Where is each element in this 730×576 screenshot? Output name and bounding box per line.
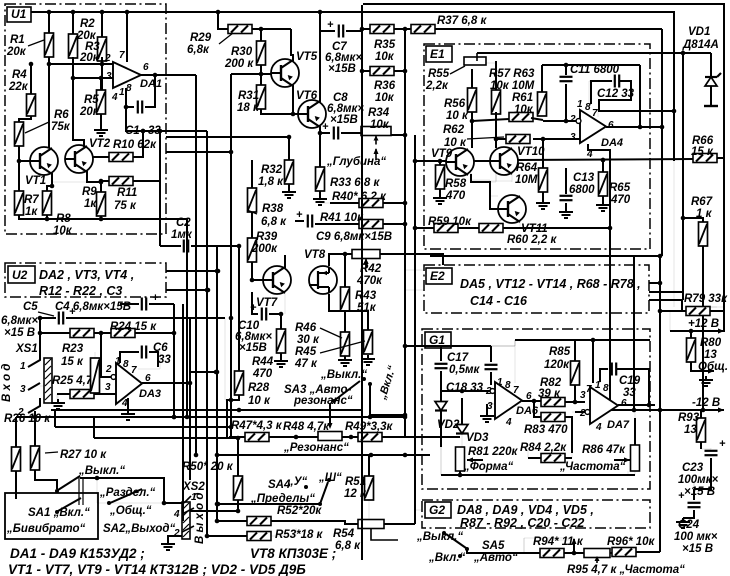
svg-text:6,8к: 6,8к bbox=[187, 44, 210, 56]
resistor R51 bbox=[365, 476, 374, 500]
wire VT8 drain bbox=[329, 254, 352, 266]
label R61 bbox=[512, 92, 534, 116]
svg-text:33: 33 bbox=[623, 387, 636, 399]
resistor R27v bbox=[31, 446, 40, 470]
capacitor C6 bbox=[142, 346, 146, 359]
wire G1 feed bbox=[415, 345, 441, 347]
resistor R6 bbox=[15, 122, 24, 146]
wire R59-R60 bbox=[458, 227, 479, 229]
label R82v bbox=[538, 388, 561, 400]
label R30 bbox=[224, 46, 254, 70]
svg-text:75 к: 75 к bbox=[114, 200, 137, 212]
label Раздел bbox=[99, 487, 156, 499]
block U2 boundary bbox=[5, 263, 166, 297]
label R38 bbox=[247, 203, 287, 228]
label Выход bbox=[194, 493, 206, 544]
label R8 bbox=[53, 213, 73, 237]
wire x231 vertical bbox=[229, 74, 234, 437]
svg-text:+: + bbox=[322, 121, 329, 133]
svg-text:R34: R34 bbox=[368, 107, 390, 119]
label VT11 bbox=[521, 223, 548, 235]
wire R35 left bbox=[360, 27, 370, 32]
svg-text:470: 470 bbox=[252, 368, 273, 380]
wire SA2 line bbox=[97, 478, 184, 505]
switch SA1a bbox=[55, 476, 80, 493]
label R95 bbox=[567, 564, 685, 576]
svg-text:„Бивибрато“: „Бивибрато“ bbox=[6, 523, 86, 535]
svg-text:С18 33: С18 33 bbox=[446, 382, 484, 394]
wire VT1 emitter bbox=[47, 173, 54, 191]
capacitor C17 bbox=[435, 364, 448, 368]
wire VD1 top bbox=[710, 53, 712, 77]
wire C6 loop bbox=[120, 352, 160, 369]
svg-text:R86 47к: R86 47к bbox=[582, 444, 626, 456]
label C23 bbox=[678, 462, 719, 498]
svg-text:U1: U1 bbox=[11, 7, 27, 21]
label DA3 bbox=[139, 388, 161, 400]
svg-text:2: 2 bbox=[104, 53, 111, 64]
wire x660 vertical bbox=[658, 254, 663, 410]
svg-text:VT1: VT1 bbox=[25, 175, 46, 187]
svg-text:В ы х о д: В ы х о д bbox=[194, 493, 206, 544]
wire pin2 drop bbox=[101, 333, 116, 379]
wire R84R83 join bbox=[565, 457, 572, 459]
wire R23 left bbox=[38, 331, 70, 336]
wire x196 vertical bbox=[194, 75, 199, 457]
svg-text:R42: R42 bbox=[360, 263, 382, 275]
wire R30 R31 link bbox=[260, 65, 262, 85]
svg-text:×15В: ×15В bbox=[328, 63, 356, 75]
label Бивибрато bbox=[6, 523, 86, 535]
wire y417 bus bbox=[16, 415, 405, 420]
wire SA5 Вкл contact bbox=[458, 554, 462, 560]
resistor R94 bbox=[540, 549, 564, 558]
wire C9 left bbox=[295, 220, 304, 222]
label R3 bbox=[79, 41, 100, 64]
ground C13 bbox=[559, 208, 573, 218]
wire C7 right bbox=[346, 30, 362, 32]
label R67 bbox=[691, 196, 713, 220]
wire y53 line to VD1 bbox=[477, 51, 711, 56]
label R80 bbox=[698, 337, 728, 373]
label SA1 Выкл bbox=[78, 465, 125, 477]
wire DA4 pin4 bbox=[588, 144, 610, 228]
label R1 bbox=[6, 34, 44, 58]
label C1 bbox=[125, 125, 161, 137]
label R23 bbox=[61, 343, 84, 368]
svg-text:VT10: VT10 bbox=[517, 146, 545, 158]
svg-text:VD1: VD1 bbox=[688, 26, 710, 38]
wire G1 top bbox=[441, 345, 515, 347]
label VT10 bbox=[517, 146, 545, 158]
label SA3 bbox=[284, 384, 353, 407]
svg-text:С4 6,8мк×15В: С4 6,8мк×15В bbox=[55, 301, 131, 313]
svg-text:6: 6 bbox=[143, 62, 149, 73]
resistor R86 trimmer bbox=[631, 445, 640, 471]
svg-text:×15В: ×15В bbox=[330, 114, 358, 126]
resistor R25 bbox=[70, 390, 94, 399]
wire fb drop bbox=[639, 65, 641, 127]
svg-text:R83 470: R83 470 bbox=[524, 424, 568, 436]
svg-text:10 к: 10 к bbox=[248, 395, 271, 407]
svg-text:R44: R44 bbox=[252, 356, 274, 368]
wire G1 top line bbox=[441, 345, 491, 347]
svg-text:„Выкл.“: „Выкл.“ bbox=[78, 465, 125, 477]
wire C24 v bbox=[694, 458, 711, 500]
resistor R37 bbox=[411, 25, 435, 34]
label R52 bbox=[277, 505, 322, 517]
wire R8 bot bbox=[46, 215, 48, 219]
label R49 bbox=[345, 421, 394, 433]
label line1b bbox=[250, 546, 336, 561]
svg-text:15 к: 15 к bbox=[691, 146, 714, 158]
wire C23 conn bbox=[701, 448, 711, 449]
label R82 bbox=[538, 377, 562, 398]
label R6 bbox=[25, 109, 71, 133]
svg-text:470: 470 bbox=[445, 190, 466, 202]
label R81 bbox=[468, 446, 518, 458]
label R58 bbox=[445, 178, 467, 202]
switch SA1 link bbox=[79, 477, 83, 505]
svg-text:R4: R4 bbox=[12, 69, 27, 81]
wire DA1 pin3 line bbox=[71, 76, 113, 81]
svg-text:3: 3 bbox=[105, 382, 111, 393]
svg-text:R1: R1 bbox=[10, 34, 25, 46]
label R65 bbox=[609, 182, 631, 206]
label R24 bbox=[110, 321, 157, 333]
wire R64 top bbox=[542, 139, 544, 168]
wire y410 bus bbox=[51, 408, 363, 413]
resistor R48 trimmer bbox=[318, 432, 342, 441]
svg-text:R28: R28 bbox=[248, 382, 270, 394]
wire U1 bottom rail bbox=[19, 215, 166, 221]
svg-text:DA8 , DA9 , VD4 , VD5 ,: DA8 , DA9 , VD4 , VD5 , bbox=[457, 503, 594, 517]
transistor VT6 bbox=[298, 100, 326, 128]
resistor R63 bbox=[538, 92, 547, 116]
resistor R57 bbox=[492, 90, 501, 114]
svg-text:10к: 10к bbox=[375, 92, 395, 104]
svg-text:DA7: DA7 bbox=[607, 419, 630, 431]
svg-text:7: 7 bbox=[592, 108, 598, 119]
wire R83 left bbox=[534, 401, 541, 417]
svg-text:×15В: ×15В bbox=[239, 342, 267, 354]
label +12V bbox=[688, 318, 719, 330]
svg-text:R26 10 к: R26 10 к bbox=[4, 413, 51, 425]
wire R34 right bbox=[391, 133, 407, 138]
wire R38 top bbox=[251, 160, 253, 188]
wire G1 fb top bbox=[515, 338, 650, 383]
svg-text:-12 В: -12 В bbox=[692, 397, 720, 409]
resistor R5 bbox=[97, 90, 106, 114]
svg-text:„Частота“: „Частота“ bbox=[559, 461, 626, 473]
wire C4 right bbox=[120, 304, 176, 335]
wire C23C24 link bbox=[694, 458, 711, 500]
connector XS2 bbox=[182, 502, 190, 539]
label Глубина bbox=[326, 156, 386, 168]
wire DA6 pin3 gnd bbox=[480, 404, 495, 422]
wire VT emitters bbox=[471, 173, 512, 181]
wire x683 vert bbox=[681, 53, 686, 300]
block G2 boundary bbox=[422, 500, 650, 528]
wire C1 bottom net bbox=[124, 105, 207, 134]
label C12 bbox=[597, 88, 635, 100]
capacitor C5 bbox=[59, 306, 76, 325]
label R55 bbox=[425, 66, 465, 92]
wire R84 right bbox=[565, 453, 572, 458]
svg-text:С11 6800: С11 6800 bbox=[570, 64, 620, 76]
svg-text:3: 3 bbox=[580, 390, 586, 401]
wire R50 bot bbox=[237, 500, 239, 511]
wire C18 v bbox=[490, 346, 492, 385]
svg-text:R52*20к: R52*20к bbox=[277, 505, 322, 517]
ground R32 bbox=[282, 184, 296, 198]
label G2 Выкл bbox=[416, 531, 463, 543]
wire C1 right bbox=[145, 75, 155, 107]
svg-text:DA5 , VT12 - VT14 , R68 - R78: DA5 , VT12 - VT14 , R68 - R78 , bbox=[460, 277, 641, 291]
wire VD2 bot bbox=[440, 411, 442, 447]
svg-text:SA1 „Вкл.“: SA1 „Вкл.“ bbox=[28, 507, 90, 519]
svg-text:R93: R93 bbox=[678, 412, 700, 424]
svg-text:R81 220к: R81 220к bbox=[468, 446, 518, 458]
svg-text:VT9: VT9 bbox=[431, 148, 453, 160]
wire R79 left bbox=[658, 300, 686, 313]
label VT9 bbox=[431, 148, 453, 160]
wire G1 feed2 bbox=[403, 344, 441, 349]
switch SA1b bbox=[55, 498, 81, 514]
svg-text:R45: R45 bbox=[295, 346, 317, 358]
resistor R96 bbox=[612, 548, 636, 557]
svg-text:20к: 20к bbox=[79, 52, 100, 64]
svg-text:R32: R32 bbox=[261, 164, 283, 176]
contact XS1 pin3 bbox=[28, 383, 44, 390]
svg-text:6800: 6800 bbox=[569, 184, 595, 196]
pins XS2 bbox=[173, 492, 197, 539]
label R25 bbox=[52, 375, 99, 387]
resistor R11 bbox=[109, 177, 133, 186]
label R45 bbox=[294, 341, 365, 370]
capacitor C12 bbox=[615, 75, 619, 88]
wire R46 top bbox=[329, 294, 375, 365]
pins DA3 bbox=[105, 356, 151, 409]
svg-text:12 к: 12 к bbox=[344, 488, 367, 500]
label C10 bbox=[235, 320, 272, 354]
wire R37 right bbox=[435, 28, 662, 30]
label R40 bbox=[332, 191, 387, 203]
label R96 bbox=[607, 536, 656, 548]
wire G1 fb left bbox=[491, 340, 515, 346]
label R2 bbox=[76, 18, 97, 42]
svg-text:6: 6 bbox=[621, 398, 627, 409]
resistor R46 bbox=[364, 330, 373, 354]
svg-text:100 мк×: 100 мк× bbox=[674, 531, 718, 543]
pins DA4 bbox=[569, 99, 614, 160]
label R5 bbox=[79, 94, 100, 118]
wire R94-R95 bbox=[564, 551, 584, 556]
capacitor C2 bbox=[184, 240, 188, 253]
pins XS1 bbox=[17, 361, 26, 418]
svg-text:R27 10 к: R27 10 к bbox=[60, 449, 107, 461]
wire R51 top bbox=[368, 455, 370, 476]
wire R11 right bbox=[133, 131, 160, 246]
resistor R56 bbox=[468, 88, 477, 112]
wire VT5 collector bbox=[291, 29, 293, 61]
wire VT1 base bbox=[19, 160, 30, 162]
svg-text:3: 3 bbox=[570, 132, 576, 143]
label VD1 bbox=[682, 26, 719, 51]
wire VD3 v bbox=[460, 398, 462, 447]
label Ш bbox=[318, 472, 342, 484]
svg-text:+: + bbox=[678, 490, 685, 502]
wire R6 down to R7 bbox=[17, 146, 22, 191]
wire VT6 collector bbox=[318, 10, 323, 103]
wire R4 R6 link bbox=[19, 116, 31, 122]
wire R65 top bbox=[601, 158, 606, 172]
wire R94 junction up bbox=[524, 538, 574, 553]
transistor VT9 bbox=[446, 148, 474, 176]
svg-text:1: 1 bbox=[119, 87, 125, 98]
svg-text:R96* 10к: R96* 10к bbox=[607, 536, 656, 548]
wire R85 bot bbox=[574, 385, 576, 402]
wire U2 exit1 bbox=[166, 269, 220, 274]
diode VD3 bbox=[456, 425, 468, 434]
wire R81 bot bbox=[441, 447, 460, 475]
wire C12 right bbox=[599, 81, 631, 110]
wire R58 top bbox=[439, 161, 441, 165]
resistor R30 bbox=[257, 41, 266, 65]
wire R28 top bbox=[238, 246, 240, 371]
svg-text:470к: 470к bbox=[356, 275, 383, 287]
resistor R67 bbox=[699, 222, 708, 246]
resistor R58 bbox=[436, 165, 445, 189]
capacitor C18 bbox=[485, 365, 498, 369]
wire R11 left bbox=[99, 179, 109, 184]
wire R82 right bbox=[565, 400, 585, 405]
resistor R93 bbox=[697, 418, 706, 442]
label C11 bbox=[570, 64, 620, 76]
ground R44 bbox=[274, 353, 288, 367]
resistor R29 bbox=[228, 25, 252, 34]
svg-text:VT5: VT5 bbox=[296, 51, 318, 63]
block E2 boundary bbox=[424, 265, 649, 313]
resistor R49 bbox=[358, 433, 382, 442]
wire R29 right bbox=[252, 27, 291, 32]
label C17 bbox=[447, 352, 480, 376]
ground R5 bbox=[94, 126, 108, 136]
block G2 text bbox=[457, 503, 594, 530]
transistor VT11 bbox=[498, 195, 526, 223]
wire VT11 base bbox=[471, 174, 498, 209]
label R36 bbox=[374, 80, 396, 104]
wire x662 loop bbox=[660, 29, 665, 256]
label R27 bbox=[45, 449, 107, 461]
svg-text:R41 10к: R41 10к bbox=[320, 212, 364, 224]
transistor VT10 bbox=[490, 147, 518, 175]
resistor R24 bbox=[111, 329, 135, 338]
wire R56 top bbox=[471, 69, 473, 88]
label SA3 Вкл bbox=[376, 364, 399, 402]
svg-text:2: 2 bbox=[105, 364, 112, 375]
label C19 bbox=[619, 375, 641, 399]
svg-text:×15 В: ×15 В bbox=[682, 543, 713, 555]
label SA4 bbox=[268, 476, 308, 491]
wire R5 top bbox=[100, 78, 102, 90]
svg-text:R7: R7 bbox=[24, 194, 39, 206]
svg-text:2: 2 bbox=[569, 114, 576, 125]
svg-text:R2: R2 bbox=[80, 18, 95, 30]
label SA2 bbox=[103, 523, 175, 535]
wire R3 to pin2 bbox=[101, 57, 103, 90]
wire R33 top bbox=[319, 133, 321, 167]
wire rail to R29 bbox=[216, 10, 228, 29]
label R66 bbox=[691, 135, 714, 156]
svg-text:С13: С13 bbox=[573, 172, 595, 184]
svg-text:10к: 10к bbox=[375, 51, 395, 63]
ground R80 bbox=[699, 376, 713, 386]
resistor R81 trimmer bbox=[456, 447, 465, 471]
contact XS2 pin2 bbox=[182, 526, 196, 532]
svg-text:R46: R46 bbox=[295, 322, 317, 334]
op-amp DA4 bbox=[580, 110, 606, 143]
label R62 bbox=[443, 124, 504, 149]
wire R55 wiper bbox=[476, 53, 478, 61]
svg-text:10к: 10к bbox=[370, 119, 390, 131]
resistor R1 bbox=[45, 33, 54, 57]
wire R79 right bbox=[710, 307, 724, 332]
wire R93 top bbox=[700, 410, 702, 418]
label R4 bbox=[8, 69, 29, 93]
resistor R32 bbox=[285, 160, 294, 184]
svg-text:1: 1 bbox=[20, 361, 26, 372]
label R43 bbox=[355, 290, 377, 314]
resistor R34 trimmer bbox=[361, 127, 391, 145]
wire DA7 pin2 bbox=[572, 410, 590, 415]
label R46 bbox=[295, 322, 342, 346]
svg-text:R35: R35 bbox=[374, 39, 396, 51]
resistor R42 trimmer bbox=[352, 250, 380, 268]
label R11 bbox=[114, 187, 137, 212]
wire C8 right bbox=[341, 132, 362, 134]
wire R95-R96 bbox=[610, 552, 612, 554]
label XS1 bbox=[15, 343, 38, 355]
wire R3 top stub bbox=[100, 10, 105, 37]
label R26 bbox=[4, 413, 51, 425]
label R10 bbox=[113, 139, 157, 151]
wire R36 right bbox=[394, 69, 407, 74]
wire R62 left bbox=[494, 112, 506, 148]
wire tap bbox=[572, 538, 577, 553]
wire R95 wiper bbox=[595, 556, 600, 563]
contact XS1 pin1 bbox=[28, 318, 40, 367]
label VD2 bbox=[437, 419, 460, 431]
wire R26 bot bbox=[15, 471, 17, 499]
capacitor C4 bbox=[142, 292, 159, 311]
svg-text:R54: R54 bbox=[333, 528, 355, 540]
switch SA4 bbox=[304, 478, 331, 506]
svg-text:6: 6 bbox=[608, 120, 614, 131]
wire fb leftv bbox=[491, 340, 515, 346]
resistor R31 bbox=[257, 85, 266, 109]
svg-text:R65: R65 bbox=[609, 182, 631, 194]
label C13b bbox=[569, 184, 595, 196]
wire R94R95 tap bbox=[548, 540, 574, 553]
resistor R52 bbox=[247, 517, 271, 526]
svg-text:R62: R62 bbox=[443, 124, 465, 136]
wire y438 bus bbox=[94, 417, 240, 440]
svg-text:„Общ.“: „Общ.“ bbox=[109, 505, 152, 517]
transistor VT8 fet bbox=[309, 266, 337, 294]
connector XS1 bbox=[44, 358, 52, 403]
svg-text:200 к: 200 к bbox=[224, 58, 254, 70]
